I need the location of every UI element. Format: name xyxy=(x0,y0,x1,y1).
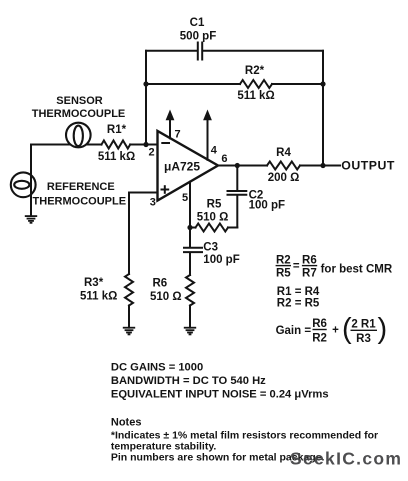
label R3* xyxy=(84,277,104,289)
junction: output/right vertical xyxy=(320,163,325,168)
wire: C2 bottom vertical xyxy=(236,196,238,228)
svg-text:OUTPUT: OUTPUT xyxy=(341,158,395,172)
ground (R6) xyxy=(184,328,196,335)
svg-text:R5: R5 xyxy=(276,267,291,279)
label R3 value 511 k ohm xyxy=(80,291,117,303)
svg-text:2: 2 xyxy=(148,147,154,159)
svg-text:Gain =: Gain = xyxy=(276,325,312,337)
wire: right vertical (feedback to output) xyxy=(322,51,324,166)
wire: R4 to OUTPUT xyxy=(300,165,340,167)
svg-text:100 pF: 100 pF xyxy=(203,254,239,266)
formula R2/R5 = R6/R7 for best CMR xyxy=(276,254,393,279)
label C3 xyxy=(203,241,218,253)
pin 2 label xyxy=(148,147,154,159)
svg-text:R3: R3 xyxy=(356,333,371,345)
wire: pin 3 vertical to R3 xyxy=(128,193,130,275)
resistor R3 xyxy=(125,274,133,306)
wire: output from pin 6 xyxy=(218,165,267,167)
svg-text:R6: R6 xyxy=(153,278,168,290)
label THERMOCOUPLE (reference) xyxy=(33,196,127,208)
svg-text:R2: R2 xyxy=(312,333,327,345)
label R5 value 510 ohm xyxy=(197,211,229,223)
pin 5 label xyxy=(182,192,188,204)
spec line EQUIVALENT INPUT NOISE xyxy=(111,388,329,400)
svg-text:200 Ω: 200 Ω xyxy=(268,172,300,184)
junction: inverting node xyxy=(143,142,148,147)
svg-text:511 kΩ: 511 kΩ xyxy=(237,90,274,102)
label C1 xyxy=(190,17,205,29)
label R4 xyxy=(276,147,291,159)
wire: R3 to ground xyxy=(128,306,130,328)
note line 3 xyxy=(111,452,325,464)
svg-text:): ) xyxy=(378,313,388,345)
svg-text:THERMOCOUPLE: THERMOCOUPLE xyxy=(32,108,126,120)
ground (reference thermocouple) xyxy=(25,216,37,223)
spec line DC GAINS xyxy=(111,362,203,374)
svg-text:BANDWIDTH = DC TO 540 Hz: BANDWIDTH = DC TO 540 Hz xyxy=(111,375,266,387)
svg-text:temperature stability.: temperature stability. xyxy=(111,440,217,452)
resistor R1 xyxy=(102,141,131,149)
label C3 value 100 pF xyxy=(203,254,239,266)
junction: output/C2 branch xyxy=(235,163,240,168)
svg-text:5: 5 xyxy=(182,192,188,204)
pin 6 label xyxy=(221,153,227,165)
label SENSOR xyxy=(56,95,103,107)
resistor R4 xyxy=(267,162,300,170)
label REFERENCE xyxy=(47,181,115,193)
op-amp minus sign xyxy=(162,142,169,144)
svg-text:500 pF: 500 pF xyxy=(180,31,216,43)
svg-text:EQUIVALENT INPUT NOISE = 0.24: EQUIVALENT INPUT NOISE = 0.24 μVrms xyxy=(111,388,329,400)
svg-text:R6: R6 xyxy=(302,254,317,266)
label R6 value 510 ohm xyxy=(150,291,182,303)
label R2* xyxy=(245,65,265,77)
label R1 value 511 k ohm xyxy=(98,151,135,163)
capacitor C1 xyxy=(198,43,202,60)
wire: C1 top feedback, right segment xyxy=(204,50,323,52)
wire: pin 3 horizontal xyxy=(129,192,158,194)
svg-text:6: 6 xyxy=(221,153,227,165)
wire: C2 top vertical xyxy=(236,166,238,191)
wire: left vertical (inverting node to feedback) xyxy=(145,51,147,145)
pin 4 supply arrow xyxy=(203,110,212,160)
svg-text:511 kΩ: 511 kΩ xyxy=(98,151,135,163)
svg-text:DC GAINS = 1000: DC GAINS = 1000 xyxy=(111,362,203,374)
svg-text:R1*: R1* xyxy=(107,124,127,136)
notes heading xyxy=(111,417,142,429)
label uA725 xyxy=(164,160,200,174)
resistor R6 xyxy=(186,275,194,306)
svg-text:+: + xyxy=(332,325,339,337)
svg-text:μA725: μA725 xyxy=(164,160,200,174)
label C2 value 100 pF xyxy=(249,200,285,212)
junction: pin5/R5/C3 node xyxy=(187,225,192,230)
svg-text:R2 = R5: R2 = R5 xyxy=(277,297,320,309)
svg-text:R2: R2 xyxy=(276,254,291,266)
pin 4 label xyxy=(211,144,218,156)
svg-text:2 R1: 2 R1 xyxy=(351,319,376,331)
svg-text:R1 = R4: R1 = R4 xyxy=(277,286,320,298)
wire: left vertical through reference thermocouple xyxy=(30,145,32,217)
formula R2 = R5 xyxy=(277,297,320,309)
svg-text:R7: R7 xyxy=(302,267,317,279)
svg-text:7: 7 xyxy=(175,128,181,140)
svg-text:R3*: R3* xyxy=(84,277,104,289)
wire: R2 left segment xyxy=(146,83,240,85)
sensor thermocouple symbol xyxy=(66,123,91,148)
svg-text:=: = xyxy=(293,261,300,273)
svg-text:R2*: R2* xyxy=(245,65,265,77)
svg-text:C3: C3 xyxy=(203,241,218,253)
wire: R2 right segment xyxy=(272,83,323,85)
formula R1 = R4 xyxy=(277,286,320,298)
svg-text:3: 3 xyxy=(150,197,156,209)
watermark SeekIC.com xyxy=(290,449,402,469)
spec line BANDWIDTH xyxy=(111,375,266,387)
label OUTPUT xyxy=(341,158,395,172)
svg-text:REFERENCE: REFERENCE xyxy=(47,181,115,193)
svg-text:THERMOCOUPLE: THERMOCOUPLE xyxy=(33,196,127,208)
wire: C3 to R6 xyxy=(189,253,191,275)
pin 3 label xyxy=(150,197,156,209)
resistor R5 xyxy=(190,224,237,232)
svg-text:R5: R5 xyxy=(207,198,222,210)
label R6 xyxy=(153,278,168,290)
ground (R3) xyxy=(123,328,135,335)
pin 7 supply arrow xyxy=(166,110,175,139)
wire: sensor input horizontal xyxy=(31,144,102,146)
wire: R1 to inverting input xyxy=(130,144,157,146)
svg-text:510 Ω: 510 Ω xyxy=(150,291,182,303)
resistor R2 xyxy=(240,80,272,88)
svg-text:510 Ω: 510 Ω xyxy=(197,211,229,223)
label R2 value 511 k ohm xyxy=(237,90,274,102)
capacitor C3 xyxy=(184,248,202,252)
junction: R2/right vertical xyxy=(320,81,325,86)
svg-text:Notes: Notes xyxy=(111,417,142,429)
svg-text:for best CMR: for best CMR xyxy=(321,263,393,275)
label THERMOCOUPLE (sensor) xyxy=(32,108,126,120)
capacitor C2 xyxy=(228,191,247,195)
svg-text:R4: R4 xyxy=(276,147,291,159)
svg-text:C1: C1 xyxy=(190,17,205,29)
label C1 value 500 pF xyxy=(180,31,216,43)
wire: C1 top feedback, left segment xyxy=(146,50,196,52)
label R4 value 200 ohm xyxy=(268,172,300,184)
op-amp plus sign xyxy=(162,186,169,193)
note line 2 xyxy=(111,440,217,452)
label R5 xyxy=(207,198,222,210)
wire: pin 5 vertical xyxy=(189,182,191,228)
note line 1 xyxy=(111,429,378,441)
svg-text:R6: R6 xyxy=(312,318,327,330)
label C2 xyxy=(249,190,264,202)
svg-text:511 kΩ: 511 kΩ xyxy=(80,291,117,303)
junction: R2/left vertical xyxy=(143,81,148,86)
label R1* xyxy=(107,124,127,136)
svg-text:SeekIC.com: SeekIC.com xyxy=(290,449,402,469)
formula Gain = R6/R2 + (2 R1/R3) xyxy=(276,313,388,345)
wire: node to C3 xyxy=(189,228,191,247)
reference thermocouple symbol xyxy=(11,172,36,197)
pin 7 label xyxy=(175,128,181,140)
op-amp U1 uA725 triangle xyxy=(158,131,219,201)
svg-text:SENSOR: SENSOR xyxy=(56,95,103,107)
svg-text:100 pF: 100 pF xyxy=(249,200,285,212)
wire: R6 to ground xyxy=(189,306,191,328)
svg-text:4: 4 xyxy=(211,144,218,156)
